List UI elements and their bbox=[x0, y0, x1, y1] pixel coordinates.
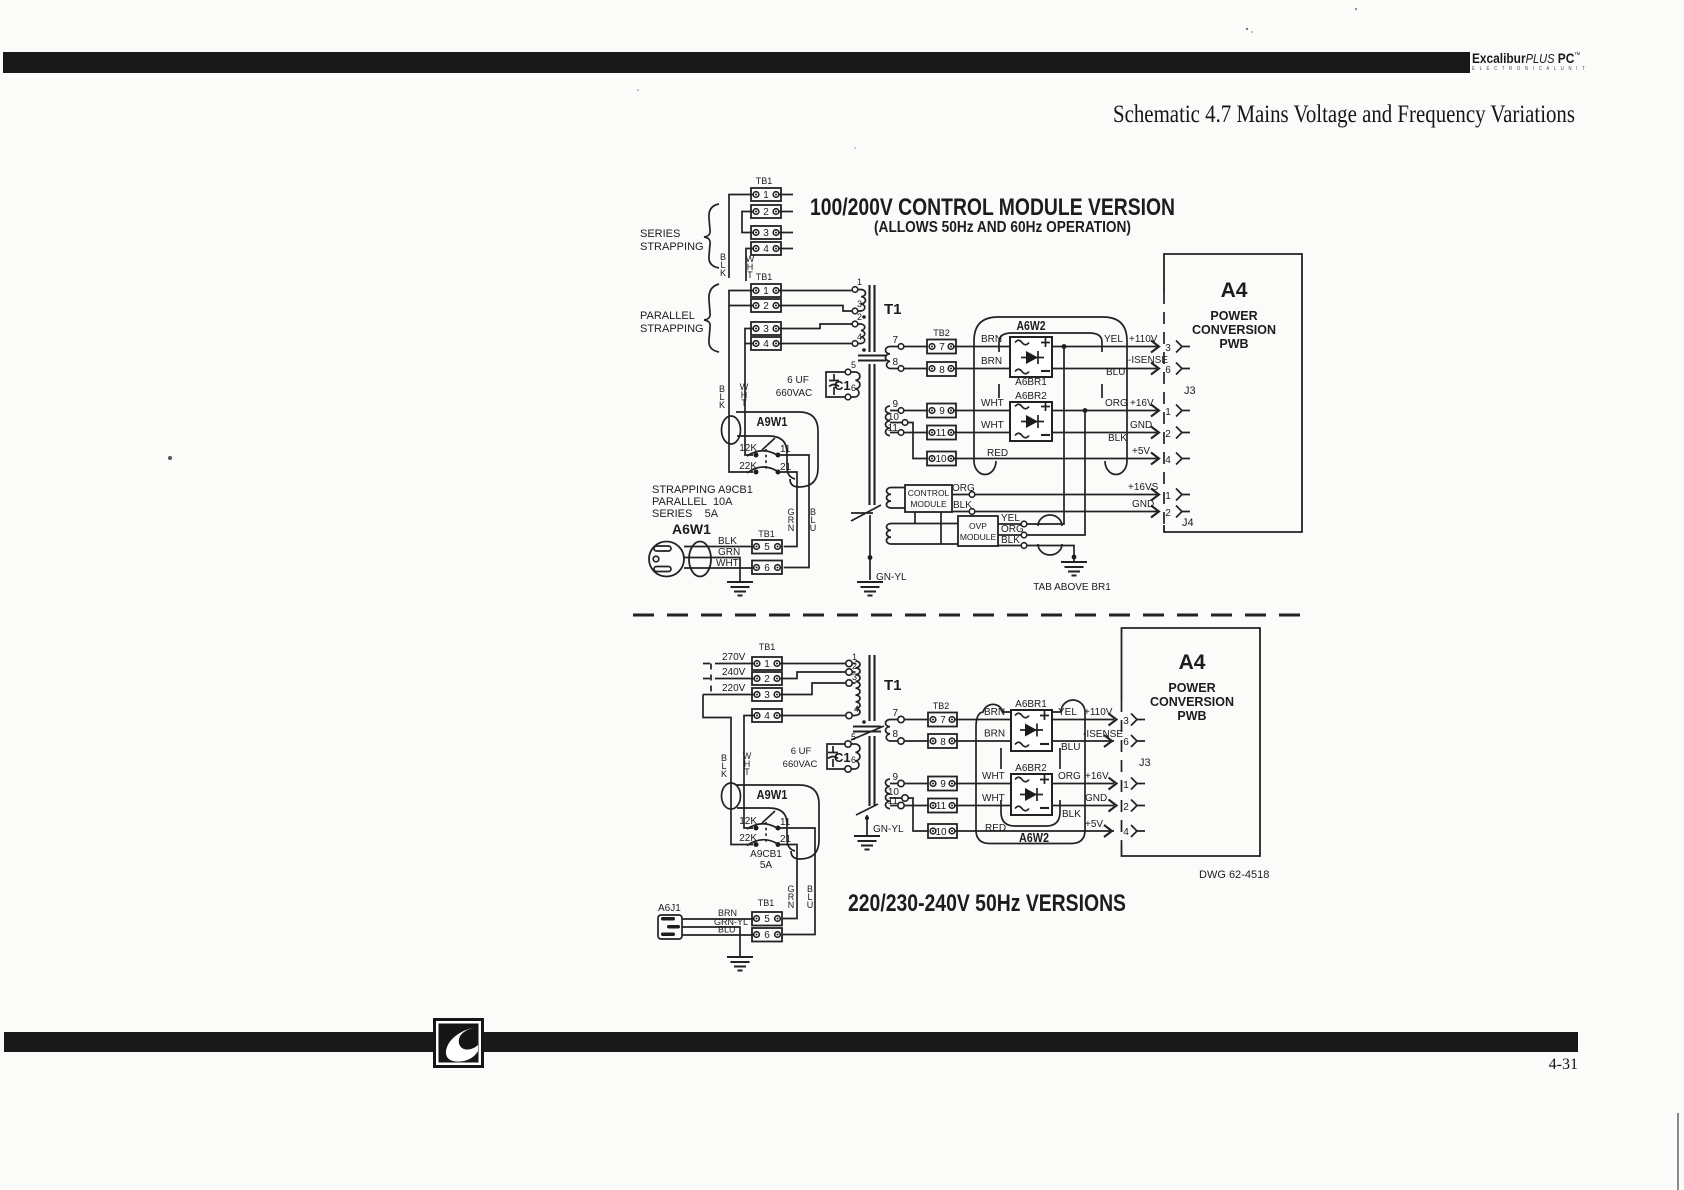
svg-text:ORG: ORG bbox=[1058, 771, 1081, 782]
svg-text:1: 1 bbox=[1123, 780, 1129, 791]
svg-text:A4: A4 bbox=[1221, 279, 1248, 302]
wire BLU (breaker 11 to TB1-6) bbox=[778, 455, 816, 568]
svg-text:11: 11 bbox=[936, 428, 947, 439]
wire GRN-YL (A6J1 to chassis ground) bbox=[682, 917, 748, 957]
A4 POWER CONVERSION PWB box (top) bbox=[1164, 254, 1302, 532]
svg-text:7: 7 bbox=[940, 715, 946, 726]
svg-text:270V: 270V bbox=[722, 652, 746, 663]
svg-text:BLU: BLU bbox=[1106, 367, 1125, 378]
svg-text:MODULE: MODULE bbox=[910, 499, 947, 509]
svg-text:TB1: TB1 bbox=[758, 898, 775, 908]
svg-text:A6BR2: A6BR2 bbox=[1015, 391, 1047, 402]
svg-text:4: 4 bbox=[763, 339, 769, 350]
wire 240V tap to TB1-2 bbox=[703, 667, 754, 679]
svg-text:2: 2 bbox=[1165, 508, 1171, 519]
svg-text:6 UF: 6 UF bbox=[791, 746, 812, 757]
bundle tick marks bbox=[999, 384, 1102, 398]
wire WHT (TB2-9 to A6BR2, bottom) bbox=[955, 771, 1011, 784]
wire ORG (OVP to +16V line) bbox=[998, 411, 1085, 538]
dashed divider line bbox=[633, 614, 1312, 617]
svg-text:BLK: BLK bbox=[718, 536, 737, 547]
svg-text:(ALLOWS 50Hz AND 60Hz OPERATIO: (ALLOWS 50Hz AND 60Hz OPERATION) bbox=[874, 219, 1131, 236]
terminal block TB2 (top) 9/11/10 bbox=[927, 404, 956, 466]
svg-text:4: 4 bbox=[1123, 827, 1129, 838]
svg-text:8: 8 bbox=[940, 737, 946, 748]
svg-text:10: 10 bbox=[935, 827, 947, 838]
circuit breaker A9CB1 contacts (bottom) bbox=[739, 811, 791, 847]
connector J3 pin 2 (bottom) bbox=[1109, 800, 1146, 814]
svg-text:3: 3 bbox=[763, 228, 769, 239]
svg-text:7: 7 bbox=[892, 335, 898, 346]
title: 220/230-240V 50Hz VERSIONS bbox=[848, 890, 1126, 917]
wire BRN (TB2-8 to A6BR1) bbox=[954, 356, 1010, 369]
cable bundle A6W2 outline (bottom) bbox=[976, 700, 1085, 845]
svg-text:6: 6 bbox=[851, 383, 856, 393]
svg-text:1: 1 bbox=[763, 190, 769, 201]
svg-text:220/230-240V 50Hz VERSIONS: 220/230-240V 50Hz VERSIONS bbox=[848, 890, 1126, 917]
svg-text:GN-YL: GN-YL bbox=[873, 824, 904, 835]
bottom black banner bar bbox=[4, 1032, 1578, 1052]
svg-text:2: 2 bbox=[1165, 429, 1171, 440]
wire TB1-3 to T1 pin 3 bbox=[780, 683, 846, 695]
svg-text:T1: T1 bbox=[884, 677, 902, 694]
svg-text:BLU: BLU bbox=[1061, 742, 1080, 753]
svg-text:5: 5 bbox=[851, 360, 856, 370]
svg-text:TB1: TB1 bbox=[756, 272, 773, 282]
wire WHT (TB2-11 to A6BR2) bbox=[954, 420, 1010, 433]
svg-text:BLK: BLK bbox=[1062, 809, 1081, 820]
svg-text:4: 4 bbox=[1165, 455, 1171, 466]
wire BLK (220V down to breaker) bbox=[703, 695, 753, 845]
dashed link 270/240 options bbox=[710, 664, 712, 695]
svg-text:U: U bbox=[807, 900, 814, 910]
wire WHT: parallel TB1-3/4 down to breaker A9CB1 bbox=[740, 329, 753, 456]
wire YEL / +110V (to J3-3, bottom) bbox=[1052, 707, 1114, 720]
svg-text:220V: 220V bbox=[722, 683, 746, 694]
svg-text:9: 9 bbox=[892, 772, 898, 783]
T1 tertiary winding (control module) bbox=[886, 488, 905, 509]
wire BLK from series TB1-1 down (open end) bbox=[720, 195, 753, 279]
svg-text:A9CB1: A9CB1 bbox=[750, 849, 782, 860]
note TAB ABOVE BR1 bbox=[1033, 582, 1111, 593]
svg-text:T: T bbox=[741, 398, 747, 408]
wire TB1-1 to T1 pin 1 bbox=[779, 290, 852, 292]
bridge rectifier A6BR2 (bottom) bbox=[1011, 763, 1052, 815]
title: 100/200V CONTROL MODULE VERSION bbox=[810, 194, 1175, 236]
svg-text:1: 1 bbox=[764, 659, 770, 670]
svg-text:U: U bbox=[810, 523, 817, 533]
top black banner bar bbox=[3, 52, 1470, 73]
wire WHT (TB2-9 to A6BR2) bbox=[954, 398, 1010, 411]
GN-YL chassis ground (bottom schematic) bbox=[854, 815, 904, 850]
svg-text:YEL: YEL bbox=[1104, 334, 1123, 345]
svg-text:22K: 22K bbox=[739, 461, 757, 472]
svg-text:K: K bbox=[721, 769, 727, 779]
wire TB1-1 to T1 pin 1 bbox=[780, 663, 846, 665]
inner bundle line around A6BR2 (bottom) bbox=[1001, 800, 1060, 826]
svg-text:WHT: WHT bbox=[982, 793, 1005, 804]
svg-text:ORG: ORG bbox=[952, 483, 975, 494]
wire TB1-3 to T1 pin 2 bbox=[779, 324, 852, 329]
T1 winding (OVP module) bbox=[886, 524, 958, 545]
wire TB1-4 to T1 pin 4 bbox=[780, 715, 846, 717]
svg-text:BRN: BRN bbox=[984, 707, 1005, 718]
svg-text:240V: 240V bbox=[722, 667, 746, 678]
svg-text:T: T bbox=[744, 767, 750, 777]
label PARALLEL STRAPPING with brace bbox=[640, 284, 719, 352]
connector J3 pin 6 bbox=[1151, 363, 1190, 377]
page specks bbox=[168, 8, 1357, 460]
wire TB1-2 to T1 pin 2 bbox=[780, 672, 846, 679]
bundle loop arcs on OVP wires bbox=[1038, 515, 1062, 555]
svg-text:N: N bbox=[788, 523, 795, 533]
wire ORG / +16VS (control module to J4-1) bbox=[952, 482, 1159, 497]
core gap marks and thermal switch (upper) bbox=[851, 726, 884, 740]
svg-text:-ISENSE: -ISENSE bbox=[1083, 729, 1123, 740]
svg-text:RED: RED bbox=[985, 823, 1006, 834]
svg-text:5: 5 bbox=[764, 914, 770, 925]
svg-text:8: 8 bbox=[892, 729, 898, 740]
svg-text:11: 11 bbox=[936, 801, 947, 812]
terminal block TB1 (mains input, bottom) bbox=[752, 898, 782, 942]
svg-text:STRAPPING: STRAPPING bbox=[640, 241, 704, 253]
label A9CB1 5A bbox=[750, 849, 782, 871]
wire BLU / -ISENSE (A6BR1 - output to J3-6) bbox=[1052, 355, 1168, 378]
svg-text:+110V: +110V bbox=[1084, 707, 1113, 718]
svg-text:SERIES 5A: SERIES 5A bbox=[652, 508, 719, 520]
svg-text:3: 3 bbox=[763, 324, 769, 335]
svg-text:BLK: BLK bbox=[1001, 535, 1020, 546]
svg-text:2: 2 bbox=[852, 661, 857, 671]
svg-text:POWER: POWER bbox=[1210, 309, 1257, 323]
svg-text:1: 1 bbox=[1165, 491, 1171, 502]
svg-text:3: 3 bbox=[1165, 343, 1171, 354]
ground (A6J1 GRN-YL) bbox=[727, 957, 753, 971]
terminal block TB2 (top) 7/8 bbox=[927, 328, 956, 376]
label SERIES STRAPPING with brace bbox=[640, 204, 719, 268]
bridge rectifier A6BR1 bbox=[1010, 337, 1052, 388]
thermal switch (lower) bbox=[856, 804, 878, 815]
label J3 (bottom) bbox=[1139, 757, 1151, 769]
mains plug A6W1 bbox=[649, 521, 711, 577]
wire BLK: parallel TB1-1/2 down to breaker A9CB1 bbox=[719, 291, 753, 473]
wire stubs right of series TB1 bbox=[779, 195, 793, 249]
core lower section (bottom schematic) bbox=[870, 736, 875, 806]
core gap marks bbox=[858, 356, 886, 361]
svg-text:C1: C1 bbox=[834, 750, 851, 765]
svg-text:3: 3 bbox=[764, 690, 770, 701]
T1 secondary winding 9/10/11 bbox=[886, 399, 928, 459]
svg-text:PWB: PWB bbox=[1177, 709, 1206, 723]
svg-text:GND: GND bbox=[1132, 499, 1154, 510]
wire WHT from series TB1-4 down (open end) bbox=[746, 249, 755, 282]
svg-text:100/200V CONTROL MODULE VERSIO: 100/200V CONTROL MODULE VERSION bbox=[810, 194, 1175, 221]
svg-text:6 UF: 6 UF bbox=[787, 375, 809, 386]
svg-text:RED: RED bbox=[987, 448, 1008, 459]
svg-text:A6W2: A6W2 bbox=[1019, 830, 1049, 845]
transformer T1 (top) primary windings and core bbox=[852, 277, 901, 352]
svg-text:T1: T1 bbox=[884, 301, 902, 318]
ground (mains plug GRN) bbox=[727, 582, 753, 596]
svg-text:BRN: BRN bbox=[981, 334, 1002, 345]
wire 220V tap to TB1-3 bbox=[703, 683, 754, 695]
connector J4 pin 1 bbox=[1151, 489, 1190, 503]
svg-text:PARALLEL 10A: PARALLEL 10A bbox=[652, 496, 733, 508]
wire BRN (TB2-7 to A6BR1) bbox=[954, 334, 1010, 347]
svg-text:10: 10 bbox=[935, 454, 947, 465]
svg-text:BRN: BRN bbox=[981, 356, 1002, 367]
svg-text:2: 2 bbox=[763, 301, 769, 312]
circuit breaker A9CB1 contacts bbox=[739, 438, 791, 475]
label DWG 62-4518 bbox=[1199, 869, 1269, 881]
svg-text:TB1: TB1 bbox=[759, 642, 776, 652]
svg-text:BRN: BRN bbox=[984, 729, 1005, 740]
GN-YL chassis ground (top schematic) bbox=[857, 515, 907, 596]
wire GRN (plug to chassis ground) bbox=[684, 547, 740, 582]
thermal switch on core bbox=[851, 505, 881, 521]
svg-text:660VAC: 660VAC bbox=[776, 388, 813, 399]
svg-text:CONVERSION: CONVERSION bbox=[1150, 695, 1234, 709]
svg-text:1: 1 bbox=[1165, 407, 1171, 418]
ExcaliburPLUS PC logo bbox=[1472, 50, 1682, 76]
svg-text:BLK: BLK bbox=[953, 500, 972, 511]
svg-text:J4: J4 bbox=[1182, 517, 1194, 529]
svg-text:A4: A4 bbox=[1179, 651, 1206, 674]
svg-text:A6W2: A6W2 bbox=[1017, 318, 1046, 333]
svg-text:A9W1: A9W1 bbox=[757, 788, 788, 802]
connector J3 pin 3 bbox=[1151, 341, 1190, 355]
svg-text:GRN: GRN bbox=[718, 547, 740, 558]
connector J3 pin 1 bbox=[1151, 405, 1190, 419]
svg-text:A6BR1: A6BR1 bbox=[1015, 377, 1047, 388]
svg-text:ORG: ORG bbox=[1001, 524, 1024, 535]
wire TB1-2 to T1 pin 3 bbox=[779, 306, 852, 312]
wire RED / +5V (TB2-10 to J3-4, bottom) bbox=[955, 819, 1114, 834]
svg-text:MODULE: MODULE bbox=[960, 532, 997, 542]
svg-text:TB2: TB2 bbox=[933, 328, 950, 338]
svg-text:+5V: +5V bbox=[1132, 446, 1150, 457]
svg-text:7: 7 bbox=[939, 342, 945, 353]
svg-text:8: 8 bbox=[939, 365, 945, 376]
svg-text:5: 5 bbox=[764, 542, 770, 553]
svg-text:9: 9 bbox=[940, 779, 946, 790]
wire BLU (A6J1 to TB1-6) bbox=[682, 925, 754, 936]
svg-text:J3: J3 bbox=[1139, 757, 1151, 769]
svg-text:STRAPPING: STRAPPING bbox=[640, 323, 704, 335]
svg-text:4: 4 bbox=[763, 244, 769, 255]
page number 4-31 bbox=[1488, 1056, 1578, 1074]
connector J3 pin 6 (bottom) bbox=[1104, 735, 1145, 748]
wire YEL / +110V (A6BR1 + output to J3-3) bbox=[1052, 334, 1158, 349]
wire GRN (breaker 21 to TB1-5, bottom) bbox=[778, 845, 797, 919]
wire 270V tap to TB1-1 bbox=[703, 652, 754, 664]
terminal block TB1 (voltage select, bottom) bbox=[752, 642, 782, 722]
wire GRN (breaker 21 to TB1-5) bbox=[778, 472, 797, 547]
wire BRN (A6J1 to TB1-5) bbox=[682, 908, 754, 919]
svg-text:3: 3 bbox=[1123, 716, 1129, 727]
svg-text:OVP: OVP bbox=[969, 521, 987, 531]
OVP MODULE box bbox=[958, 516, 998, 546]
svg-text:4: 4 bbox=[764, 711, 770, 722]
T1 secondary winding 9/10/11 (bottom) bbox=[885, 772, 928, 831]
svg-text:6: 6 bbox=[1123, 737, 1129, 748]
svg-text:11: 11 bbox=[888, 423, 899, 434]
jumper wire TB1-2 to TB1-3 (series) bbox=[742, 212, 753, 233]
wire BLK (OVP to ground) bbox=[998, 535, 1074, 562]
svg-text:BLK: BLK bbox=[1108, 433, 1127, 444]
svg-text:WHT: WHT bbox=[981, 420, 1004, 431]
svg-text:BLU: BLU bbox=[718, 925, 736, 935]
svg-text:8: 8 bbox=[892, 357, 898, 368]
bridge rectifier A6BR2 bbox=[1010, 391, 1052, 441]
wire ORG / +16V (to J3-1, bottom) bbox=[1052, 771, 1114, 784]
wire BRN (TB2-8 to A6BR1, bottom) bbox=[955, 729, 1011, 742]
svg-text:ORG: ORG bbox=[1105, 398, 1128, 409]
T1 secondary winding 7/8 bbox=[886, 335, 928, 371]
svg-text:21: 21 bbox=[780, 834, 792, 845]
svg-text:6: 6 bbox=[764, 563, 770, 574]
wire BLU / -ISENSE (to J3-6, bottom) bbox=[1052, 729, 1123, 753]
svg-text:660VAC: 660VAC bbox=[783, 759, 818, 770]
svg-text:6: 6 bbox=[764, 930, 770, 941]
svg-text:T: T bbox=[747, 270, 753, 280]
wire YEL (OVP to +110V line) bbox=[998, 347, 1064, 527]
svg-text:-ISENSE: -ISENSE bbox=[1128, 355, 1168, 366]
svg-text:DWG 62-4518: DWG 62-4518 bbox=[1199, 869, 1269, 881]
svg-text:5: 5 bbox=[851, 732, 856, 742]
T1 secondary winding 7/8 (bottom) bbox=[886, 708, 929, 744]
svg-text:9: 9 bbox=[939, 406, 945, 417]
svg-text:A6BR1: A6BR1 bbox=[1015, 699, 1047, 710]
wire BLK / GND (control module to J4-2) bbox=[952, 499, 1157, 514]
label J3 bbox=[1184, 385, 1196, 397]
wires control module to OVP bus bbox=[915, 512, 941, 544]
svg-text:6: 6 bbox=[1165, 365, 1171, 376]
svg-text:5A: 5A bbox=[760, 860, 773, 871]
svg-text:A6W1: A6W1 bbox=[672, 521, 711, 537]
wire BLU (breaker 11 to TB1-6, bottom) bbox=[778, 828, 815, 935]
wire WHT (plug to TB1-6) bbox=[684, 558, 753, 569]
connector J3 pin 4 bbox=[1151, 453, 1190, 467]
page title bbox=[1113, 101, 1575, 128]
terminal block TB1 (series strapping) bbox=[751, 176, 781, 255]
svg-text:TB2: TB2 bbox=[933, 701, 950, 711]
svg-text:YEL: YEL bbox=[1001, 513, 1020, 524]
connector J3 pin 2 bbox=[1151, 427, 1190, 441]
svg-text:11: 11 bbox=[888, 796, 899, 807]
svg-text:22K: 22K bbox=[739, 833, 757, 844]
wire ORG / +16V (A6BR2 + output to J3-1) bbox=[1052, 398, 1157, 413]
svg-text:1: 1 bbox=[857, 277, 862, 287]
svg-text:WHT: WHT bbox=[981, 398, 1004, 409]
svg-text:+16V: +16V bbox=[1085, 771, 1109, 782]
svg-text:TAB ABOVE BR1: TAB ABOVE BR1 bbox=[1033, 582, 1111, 593]
cable bundle A9W1 outline (top) bbox=[722, 412, 819, 487]
A4 POWER CONVERSION PWB box (bottom) bbox=[1122, 628, 1261, 856]
svg-text:12K: 12K bbox=[739, 443, 757, 454]
svg-text:GND: GND bbox=[1130, 420, 1152, 431]
label STRAPPING A9CB1 bbox=[652, 484, 753, 520]
capacitor C1 (bottom) bbox=[783, 732, 860, 772]
wire BRN (TB2-7 to A6BR1, bottom) bbox=[955, 707, 1011, 720]
terminal block TB1 (mains input, top) bbox=[752, 529, 782, 574]
svg-text:K: K bbox=[720, 268, 726, 278]
connector J4 pin 2 bbox=[1151, 506, 1194, 530]
svg-text:2: 2 bbox=[764, 674, 770, 685]
svg-text:STRAPPING A9CB1: STRAPPING A9CB1 bbox=[652, 484, 753, 496]
svg-text:12K: 12K bbox=[739, 816, 757, 827]
connector J3 pin 4 (bottom) bbox=[1104, 825, 1145, 838]
transformer T1 (bottom) primary winding and core bbox=[846, 652, 902, 724]
wire TB1-4 to T1 pin 4 bbox=[779, 343, 852, 345]
terminal block TB2 (bottom) 7/8 bbox=[928, 701, 957, 748]
bridge rectifier A6BR1 (bottom) bbox=[1011, 699, 1052, 751]
capacitor C1 (top) bbox=[776, 360, 860, 400]
svg-text:2: 2 bbox=[1123, 802, 1129, 813]
terminal block TB1 (parallel strapping) bbox=[751, 272, 781, 350]
CONTROL MODULE box bbox=[905, 485, 952, 512]
connector J3 pin 1 (bottom) bbox=[1109, 778, 1146, 792]
svg-text:11: 11 bbox=[780, 817, 791, 828]
cable bundle A6W2 outline (top) bbox=[974, 317, 1127, 475]
svg-text:YEL: YEL bbox=[1058, 707, 1077, 718]
svg-text:11: 11 bbox=[780, 444, 791, 455]
svg-text:POWER: POWER bbox=[1168, 681, 1215, 695]
svg-text:TB1: TB1 bbox=[758, 529, 775, 539]
svg-text:Schematic 4.7 Mains Voltage an: Schematic 4.7 Mains Voltage and Frequenc… bbox=[1113, 101, 1575, 128]
wire WHT (TB2-11 to A6BR2, bottom) bbox=[955, 793, 1011, 806]
svg-text:WHT: WHT bbox=[716, 558, 739, 569]
ground (OVP BLK) bbox=[1061, 555, 1087, 576]
svg-text:6: 6 bbox=[851, 755, 856, 765]
svg-text:7: 7 bbox=[892, 708, 898, 719]
svg-text:A6BR2: A6BR2 bbox=[1015, 763, 1047, 774]
wire BLK (plug to TB1-5) bbox=[684, 536, 753, 547]
connector J3 pin 3 (bottom) bbox=[1109, 714, 1146, 728]
svg-text:A9W1: A9W1 bbox=[757, 415, 788, 429]
svg-text:WHT: WHT bbox=[982, 771, 1005, 782]
footer logo box bbox=[433, 1018, 484, 1068]
connector A6J1 bbox=[658, 903, 682, 939]
cable bundle A9W1 outline (bottom) bbox=[722, 783, 820, 859]
wire RED / +5V (TB2-10 to J3-4) bbox=[954, 446, 1157, 459]
core lower section bbox=[870, 364, 875, 505]
svg-text:CONVERSION: CONVERSION bbox=[1192, 323, 1276, 337]
svg-text:K: K bbox=[719, 400, 725, 410]
svg-text:10: 10 bbox=[888, 412, 900, 423]
svg-text:N: N bbox=[788, 900, 795, 910]
svg-text:PWB: PWB bbox=[1219, 337, 1248, 351]
svg-text:J3: J3 bbox=[1184, 385, 1196, 397]
svg-text:2: 2 bbox=[763, 207, 769, 218]
svg-text:PARALLEL: PARALLEL bbox=[640, 310, 695, 322]
bundle tick marks (bottom) bbox=[1001, 748, 1060, 769]
svg-text:1: 1 bbox=[763, 286, 769, 297]
wire BLK / GND (to J3-2, bottom) bbox=[1052, 793, 1114, 820]
svg-text:+5V: +5V bbox=[1085, 819, 1103, 830]
svg-text:SERIES: SERIES bbox=[640, 228, 680, 240]
svg-text:3: 3 bbox=[852, 672, 857, 682]
svg-text:+16V: +16V bbox=[1130, 398, 1154, 409]
svg-text:C1: C1 bbox=[834, 378, 851, 393]
svg-text:CONTROL: CONTROL bbox=[908, 488, 950, 498]
terminal block TB2 (bottom) 9/11/10 bbox=[928, 777, 957, 839]
svg-text:2: 2 bbox=[857, 312, 862, 322]
svg-text:A6J1: A6J1 bbox=[658, 903, 681, 914]
right edge mark bbox=[1677, 1113, 1679, 1190]
inner bundle line around A6BR1 bbox=[999, 333, 1102, 352]
svg-text:9: 9 bbox=[892, 399, 898, 410]
